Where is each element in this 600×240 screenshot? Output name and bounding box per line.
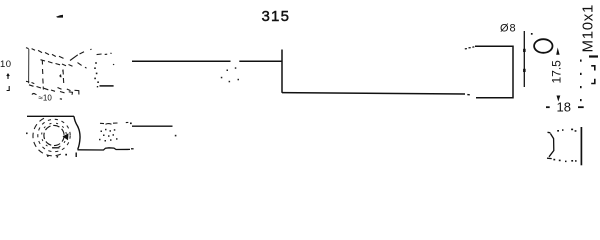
right lower marks <box>69 92 73 95</box>
dot above long line <box>130 123 132 125</box>
right flick up <box>70 55 78 61</box>
dot left of circle bottom <box>65 154 67 156</box>
dot right end <box>175 135 177 137</box>
inner vertical dashed x=63 <box>62 70 64 75</box>
bottom view crimp sketch: top wavy dashes <box>100 122 128 124</box>
tick below corner <box>75 153 77 158</box>
right fitting leading dashes <box>465 47 475 49</box>
hose top line <box>132 60 231 62</box>
inner top edge dashes <box>41 60 46 61</box>
dimension arrow under 10 <box>7 74 10 79</box>
svg-text:18: 18 <box>557 100 571 115</box>
arrow mark top-left <box>56 15 63 18</box>
banjo end: top line <box>27 115 74 117</box>
thread end figure: chamfer bracket <box>547 132 554 158</box>
thread flange line <box>580 127 582 165</box>
top edge dashes <box>26 48 29 49</box>
outer solid arc of banjo eye <box>33 118 62 156</box>
outer dashed circle <box>38 119 70 151</box>
inner ring <box>44 125 64 145</box>
stray dots under eye <box>57 156 59 158</box>
arrow tick upper <box>523 49 526 52</box>
tick mark b <box>591 79 595 84</box>
svg-text:17.5: 17.5 <box>550 60 564 84</box>
svg-text:≈10: ≈10 <box>39 94 53 103</box>
hose top line (after gap) <box>239 60 281 62</box>
left bracket vertical <box>28 49 30 83</box>
bottom view hose line <box>132 125 173 127</box>
svg-text:315: 315 <box>262 8 291 25</box>
~ mark of approx10 <box>32 94 37 95</box>
arrow tick lower <box>523 69 526 72</box>
left fitting sketch (bracket, dashed perspective) <box>26 48 92 95</box>
pointer in banjo eye <box>63 133 69 140</box>
crimp sleeve sketch (top view) <box>97 53 115 65</box>
dotted leader line <box>580 60 582 102</box>
crimp bottom line <box>100 85 114 87</box>
bottom hose line with crimp bumps <box>78 148 131 150</box>
dimension hook under 10 <box>7 86 10 91</box>
tick mark a <box>591 66 595 71</box>
arrow below 17.5 <box>557 96 561 102</box>
bar under M10x1 <box>589 55 598 57</box>
crimp speckles bottom view <box>99 129 118 142</box>
dash below eye center <box>52 147 59 149</box>
speck cluster under hose line <box>221 67 239 82</box>
middle dashed circle <box>42 123 67 148</box>
dimension line for diameter 8 <box>523 31 525 87</box>
thread crest dots top <box>557 129 576 132</box>
dot left of circle <box>26 133 28 135</box>
dash end of bottom line <box>131 148 134 150</box>
dash dot after hose bottom line <box>467 94 470 96</box>
left tick of 18 dim <box>546 106 550 108</box>
bottom-left dash dot <box>26 80 29 83</box>
right fitting outline <box>475 46 513 98</box>
thread crest dots bottom <box>553 159 576 162</box>
dot near ellipse <box>531 33 533 35</box>
hose bottom line <box>282 93 465 94</box>
small arrow right of ellipse <box>556 48 559 55</box>
trailing dash of approx10 <box>60 98 62 100</box>
svg-text:10: 10 <box>0 59 12 70</box>
ellipse symbol <box>534 39 552 53</box>
banjo end: right profile <box>74 116 80 149</box>
vertical break line <box>281 50 283 93</box>
bottom edge dashes <box>29 85 34 87</box>
inner vertical dashed x=42 <box>41 61 43 65</box>
svg-text:Ø8: Ø8 <box>500 23 517 35</box>
right tick of 18 dim <box>578 106 584 108</box>
svg-text:M10x1: M10x1 <box>580 4 597 53</box>
